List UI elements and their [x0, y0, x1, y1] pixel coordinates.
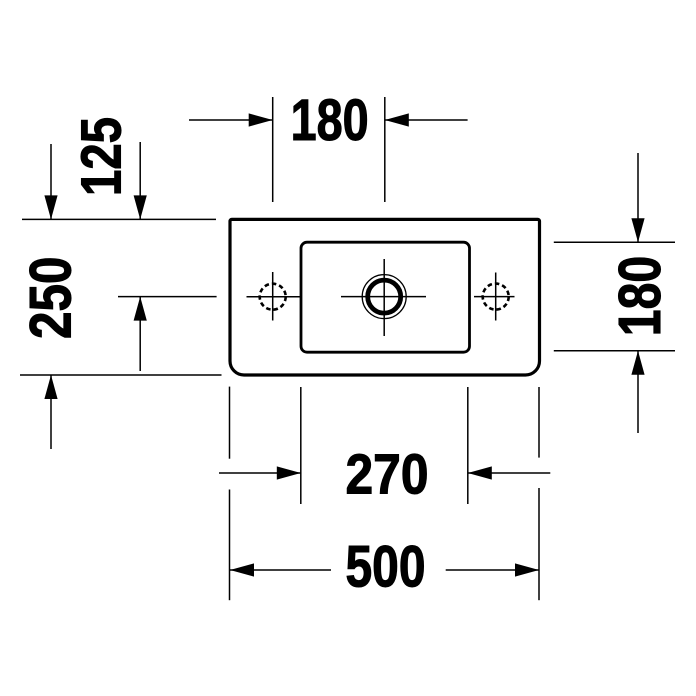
svg-text:180: 180 [606, 256, 673, 337]
svg-text:270: 270 [346, 443, 429, 506]
svg-text:180: 180 [291, 88, 369, 153]
svg-text:250: 250 [19, 256, 84, 339]
svg-text:125: 125 [70, 117, 134, 196]
svg-text:500: 500 [346, 534, 426, 599]
